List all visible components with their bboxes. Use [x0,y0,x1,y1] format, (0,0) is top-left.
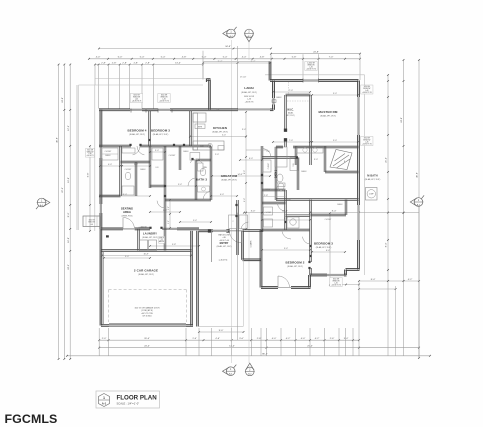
svg-text:+46.96 TS 76: +46.96 TS 76 [132,101,142,103]
svg-text:16’-8”: 16’-8” [68,237,70,243]
svg-text:CLOSET: CLOSET [105,151,112,153]
svg-text:(SLAB, 4FT, 19.8’): (SLAB, 4FT, 19.8’) [320,115,336,118]
svg-text:9’-8”: 9’-8” [88,173,90,178]
svg-text:6’-0”: 6’-0” [249,158,253,160]
svg-text:SHELF: SHELF [276,97,281,99]
svg-text:4FT, 19.8’): 4FT, 19.8’) [287,115,295,117]
svg-text:3’-0”: 3’-0” [314,159,318,161]
svg-text:(SLAB, 4FT, 19.8’): (SLAB, 4FT, 19.8’) [138,273,154,276]
svg-text:9’-8”: 9’-8” [172,244,176,246]
svg-text:5’-8”: 5’-8” [292,57,297,59]
svg-text:L-46: L-46 [162,99,165,101]
svg-text:8’-4”: 8’-4” [386,243,388,248]
svg-text:9’-0”: 9’-0” [333,93,337,95]
svg-text:20’-0”: 20’-0” [144,338,150,340]
svg-text:2’-8”: 2’-8” [112,62,117,64]
svg-text:12’-0”: 12’-0” [68,125,70,131]
svg-text:3050 SH: 3050 SH [333,279,340,281]
svg-text:FGCMLS: FGCMLS [5,412,58,426]
svg-text:2’-8”: 2’-8” [122,62,127,64]
svg-text:4’-2”: 4’-2” [408,279,413,281]
svg-text:CLOSET: CLOSET [265,212,272,214]
svg-text:13’-0”: 13’-0” [175,62,181,64]
svg-text:KITCHEN: KITCHEN [213,126,227,130]
svg-text:5’-4”: 5’-4” [193,220,197,222]
svg-text:+46.96 TS 76: +46.96 TS 76 [306,69,316,71]
svg-text:3’-0”: 3’-0” [168,206,170,210]
svg-text:5’-4”: 5’-4” [223,57,228,59]
svg-text:(SLAB, 4FT, 19.8’): (SLAB, 4FT, 19.8’) [287,265,303,268]
svg-text:24’-0”: 24’-0” [68,264,70,270]
svg-text:7’-0”: 7’-0” [329,57,334,59]
svg-text:+46.96 TS: +46.96 TS [87,155,94,157]
svg-text:WINDOW: WINDOW [161,97,168,99]
svg-text:WINDOW: WINDOW [363,140,370,142]
svg-text:9’-0”: 9’-0” [125,256,129,258]
svg-text:4’-2”: 4’-2” [286,338,291,340]
svg-text:(+46.4TS): (+46.4TS) [219,260,228,262]
svg-text:SHELF: SHELF [265,189,270,191]
svg-text:TUB: TUB [293,164,295,167]
svg-text:+46’5 TD TRU: +46’5 TD TRU [141,313,154,315]
svg-text:4’-0”: 4’-0” [301,338,306,340]
svg-text:2-3050 SH: 2-3050 SH [307,63,315,65]
svg-text:8’-4”: 8’-4” [68,213,70,218]
svg-text:3’-0”: 3’-0” [251,210,256,212]
svg-text:SHELF: SHELF [105,155,110,157]
svg-text:SHELF: SHELF [159,237,164,239]
svg-text:3050 SH: 3050 SH [133,95,140,97]
svg-text:5’-4”: 5’-4” [140,57,145,59]
svg-text:+46.96 TS 76: +46.96 TS 76 [362,92,372,94]
svg-text:SHELF: SHELF [183,151,188,153]
svg-text:SHELF: SHELF [301,171,306,173]
svg-text:CLOSET: CLOSET [125,169,132,171]
svg-text:3’-0”: 3’-0” [239,338,244,340]
svg-text:3050 SH: 3050 SH [364,86,371,88]
svg-text:3’-4”: 3’-4” [344,338,349,340]
svg-text:3’-4”: 3’-4” [242,129,246,131]
svg-text:3050 SH: 3050 SH [87,149,93,151]
svg-text:4’-8”: 4’-8” [182,57,187,59]
svg-text:16/0 7/0 OH GARAGE DOOR: 16/0 7/0 OH GARAGE DOOR [134,307,160,310]
svg-text:(VINYL FLR): (VINYL FLR) [122,216,133,218]
svg-text:BEDROOM 4: BEDROOM 4 [127,129,146,133]
svg-text:CLOSET: CLOSET [169,155,176,157]
svg-text:4’-0”: 4’-0” [272,338,277,340]
svg-text:3’-0”: 3’-0” [168,220,170,224]
svg-text:(1 REQ AT B): (1 REQ AT B) [141,309,153,312]
svg-text:5’-4”: 5’-4” [202,57,207,59]
svg-text:7’-0”: 7’-0” [289,140,293,142]
svg-text:3050 SH: 3050 SH [141,227,147,229]
svg-text:6’-4”: 6’-4” [326,250,330,252]
svg-text:2’-8”: 2’-8” [145,62,150,64]
svg-text:(SLAB, 4FT, 19.8’): (SLAB, 4FT, 19.8’) [212,131,228,134]
svg-text:5’-8”: 5’-8” [134,164,138,166]
svg-text:16’-8”: 16’-8” [143,253,148,255]
svg-text:L-46: L-46 [90,224,93,226]
svg-text:21’-4”: 21’-4” [386,157,388,163]
svg-text:8’-4”: 8’-4” [332,210,337,212]
svg-text:MASTER RM: MASTER RM [318,110,337,114]
svg-text:2’-8”: 2’-8” [134,62,139,64]
svg-text:FLOOR PLAN: FLOOR PLAN [117,395,158,402]
svg-text:CH 16 BLD: CH 16 BLD [142,316,152,318]
svg-text:8’-0”: 8’-0” [244,170,246,174]
svg-text:2’-0”: 2’-0” [102,338,107,340]
svg-text:10’-8”: 10’-8” [68,177,70,183]
svg-text:AREA: AREA [123,210,131,214]
svg-text:14’-8”: 14’-8” [237,174,242,176]
svg-text:WINDOW: WINDOW [133,97,140,99]
svg-text:L-46: L-46 [334,283,337,285]
svg-text:7’-0”: 7’-0” [289,90,293,92]
svg-text:+46.96 TS 76: +46.96 TS 76 [362,144,372,146]
svg-text:SHELF: SHELF [140,169,145,171]
svg-text:BEDROOM 2: BEDROOM 2 [285,261,304,265]
svg-text:(SLAB, 4FT, 19.8’): (SLAB, 4FT, 19.8’) [217,245,232,248]
svg-text:9’-4”: 9’-4” [284,248,288,250]
svg-text:2’-0”: 2’-0” [215,154,219,156]
svg-text:1: 1 [103,396,105,400]
svg-text:SCALE : 1/4”=1’-0”: SCALE : 1/4”=1’-0” [117,402,140,406]
svg-text:2’-6”: 2’-6” [330,338,335,340]
svg-text:22’-0”: 22’-0” [62,187,64,193]
svg-text:3’-0”: 3’-0” [155,150,159,152]
svg-text:2 CAR GARAGE: 2 CAR GARAGE [134,269,158,273]
svg-text:WATULN LNE: WATULN LNE [218,234,230,237]
svg-text:4’-0”: 4’-0” [220,194,224,196]
svg-text:46’-8”: 46’-8” [56,137,58,143]
svg-text:(SLAB, 4FT, 19.8’): (SLAB, 4FT, 19.8’) [142,236,158,239]
svg-text:(SLAB, 4FT, 19.8’): (SLAB, 4FT, 19.8’) [153,133,169,136]
svg-text:2’-8”: 2’-8” [101,62,106,64]
svg-text:ENTRY: ENTRY [220,241,229,245]
svg-text:CLOSET: CLOSET [325,219,332,221]
svg-text:24’-8”: 24’-8” [401,117,403,123]
svg-text:WINDOW: WINDOW [363,88,370,90]
svg-text:14’-0”: 14’-0” [229,346,235,348]
svg-text:5’-4”: 5’-4” [161,57,166,59]
svg-text:DW: DW [217,109,220,111]
svg-text:L-46: L-46 [365,142,368,144]
svg-text:CLOSET: CLOSET [268,163,270,169]
svg-text:(SLAB, 4FT, 19.8’): (SLAB, 4FT, 19.8’) [129,133,145,136]
svg-text:9’-0”: 9’-0” [333,140,337,142]
svg-text:(SLAB, 4FT, 19.8’): (SLAB, 4FT, 19.8’) [221,179,237,182]
svg-text:+46.96 TS 76: +46.96 TS 76 [331,285,341,287]
svg-text:9’-0”: 9’-0” [219,330,224,332]
svg-text:SHELF: SHELF [337,204,342,206]
svg-text:4’-4”: 4’-4” [242,57,247,59]
svg-text:WINDOW: WINDOW [88,222,95,224]
svg-text:8’-4”: 8’-4” [371,279,376,281]
svg-text:+46.96 TS 76: +46.96 TS 76 [159,101,169,103]
svg-text:2’-0”: 2’-0” [193,338,198,340]
svg-text:BEDROOM 3: BEDROOM 3 [314,242,333,246]
svg-text:34’-8”: 34’-8” [225,46,231,48]
svg-text:24’-8”: 24’-8” [313,52,319,54]
svg-text:5’-4”: 5’-4” [222,134,226,136]
svg-text:4’-0”: 4’-0” [108,164,112,166]
svg-text:46’-8”: 46’-8” [417,172,419,178]
svg-text:W.I.C.: W.I.C. [287,109,294,112]
svg-text:L-46: L-46 [365,90,368,92]
svg-text:24’-0”: 24’-0” [144,346,150,348]
svg-text:4’-2”: 4’-2” [315,338,320,340]
svg-text:A-1: A-1 [102,402,107,406]
svg-text:24’-8”: 24’-8” [62,97,64,103]
svg-text:3050 SH: 3050 SH [161,95,168,97]
svg-text:(SLAB, 4FT, 19.8’): (SLAB, 4FT, 19.8’) [241,91,257,94]
svg-text:BEDROOM 3: BEDROOM 3 [151,129,170,133]
svg-text:3050 SH: 3050 SH [89,219,95,221]
svg-text:+46.96 TS: +46.96 TS [245,102,254,104]
svg-text:M BATH: M BATH [367,174,378,178]
svg-text:17’-10”: 17’-10” [240,77,247,79]
svg-text:86’-8”: 86’-8” [262,354,268,356]
svg-text:WINDOW: WINDOW [333,281,340,283]
svg-text:L-46: L-46 [135,99,138,101]
svg-text:GREAT RM: GREAT RM [221,174,238,178]
svg-text:5’-4”: 5’-4” [178,184,182,186]
svg-text:COATS: COATS [250,240,253,247]
svg-text:L-46: L-46 [309,67,312,69]
svg-text:WINDOW: WINDOW [87,151,94,153]
svg-text:(SLAB, 4FT, 19.8’): (SLAB, 4FT, 19.8’) [316,246,332,249]
svg-text:BATH 3: BATH 3 [196,178,207,182]
svg-text:+72: +72 [160,239,163,241]
svg-text:4’-0”: 4’-0” [96,57,101,59]
svg-text:4’-8”: 4’-8” [260,57,265,59]
svg-text:5’-8”: 5’-8” [163,210,167,212]
svg-text:3050 SH: 3050 SH [364,138,371,140]
svg-text:9’-4”: 9’-4” [244,198,246,202]
svg-text:WINDOW: WINDOW [308,65,315,67]
svg-text:LAUNDRY: LAUNDRY [143,232,157,236]
svg-text:L-46: L-46 [88,153,91,155]
svg-text:COMP: COMP [369,194,374,196]
svg-text:LANAI: LANAI [244,86,253,90]
svg-text:L-46: L-46 [247,99,251,101]
svg-text:(SLAB, 4FT, 19.8’): (SLAB, 4FT, 19.8’) [365,178,381,181]
svg-text:6’-0”: 6’-0” [118,57,123,59]
svg-text:4’-6”: 4’-6” [215,338,220,340]
